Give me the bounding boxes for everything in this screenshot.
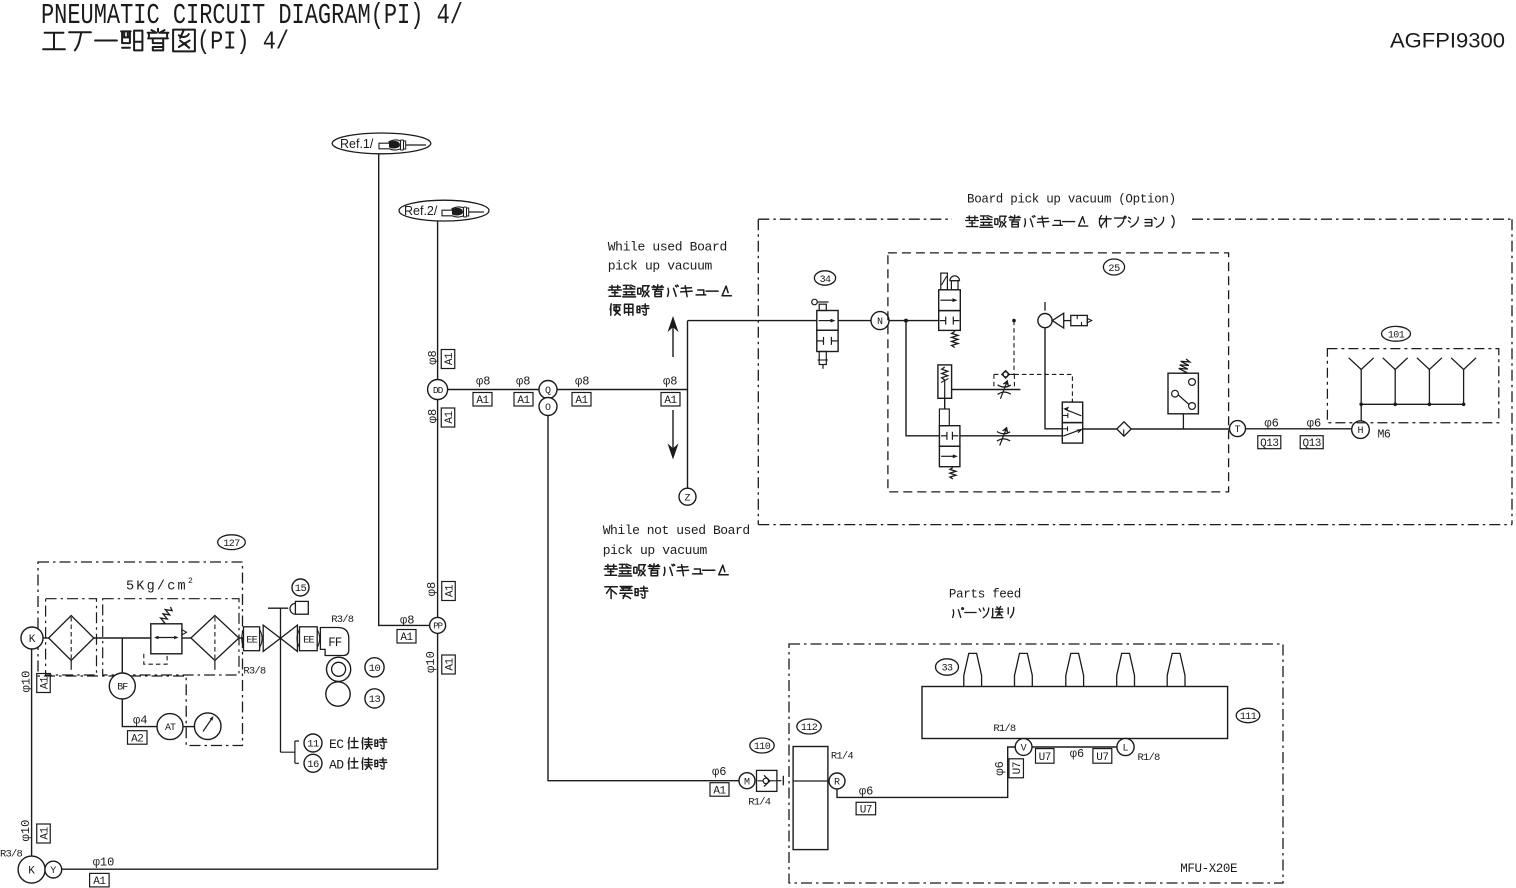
silencer muffler [1071, 315, 1092, 325]
wire bus to node H [1360, 404, 1362, 421]
pressure gauge [194, 713, 221, 740]
svg-text:25: 25 [1108, 263, 1120, 275]
wire from Ref.1 down and right to node PP [379, 154, 430, 626]
wire left riser K to K [31, 649, 33, 856]
wire valve 34 to node N [838, 320, 871, 322]
pressure regulator pilot feedback dashed [144, 654, 167, 664]
valve top actuators [941, 273, 960, 290]
pressure regulator body [151, 624, 187, 654]
wire node Q to flow riser [557, 389, 688, 391]
wire node O down and right to node M [548, 416, 739, 781]
option box Board pick up vacuum [758, 219, 1512, 524]
valve 34 roller lever actuator [812, 299, 829, 310]
label φ8/A1 segment DD-Q first [473, 375, 492, 408]
svg-text:A1: A1 [476, 395, 489, 407]
svg-text:PP: PP [433, 622, 442, 632]
node PP [430, 617, 446, 633]
svg-text:φ8: φ8 [426, 409, 440, 423]
svg-text:φ6: φ6 [1070, 747, 1084, 761]
svg-text:A1: A1 [444, 658, 456, 671]
svg-text:2: 2 [188, 577, 193, 586]
svg-text:127: 127 [223, 539, 240, 550]
label φ6/U7 riser rotated [993, 759, 1024, 778]
svg-text:112: 112 [801, 723, 818, 734]
svg-text:φ6: φ6 [1307, 417, 1321, 431]
box 25 designator oval [1103, 259, 1124, 275]
node L [1117, 738, 1134, 755]
svg-text:R3/8: R3/8 [0, 849, 23, 861]
coupling EE right [297, 627, 320, 651]
svg-text:R1/8: R1/8 [1138, 752, 1161, 764]
valve top spring [952, 331, 958, 347]
label φ8/A1 segment DD-Q second [514, 375, 533, 408]
node O [539, 398, 557, 416]
svg-text:φ6: φ6 [1264, 417, 1278, 431]
svg-text:While not used Board: While not used Board [603, 523, 750, 538]
node Q [539, 381, 557, 399]
svg-text:Parts feed: Parts feed [949, 588, 1021, 602]
bracket to options [281, 741, 300, 763]
wire main supply to valve 34 [688, 320, 817, 322]
svg-text:A1: A1 [39, 676, 51, 689]
label φ10/A1 below PP rotated [424, 651, 457, 674]
svg-text:110: 110 [754, 742, 771, 753]
title Japanese エアー配管図(PI) 4/ [43, 27, 289, 56]
svg-text:33: 33 [942, 664, 953, 675]
node AT [157, 714, 183, 740]
node DD [428, 380, 448, 400]
svg-text:10: 10 [369, 663, 381, 675]
valve lower spring [950, 468, 956, 480]
svg-text:AGFPI9300: AGFPI9300 [1390, 30, 1505, 53]
wire node N into box 25 [889, 320, 939, 322]
svg-text:φ8: φ8 [426, 350, 440, 364]
label φ10/A1 above K bottom rotated [19, 820, 52, 843]
label 5Kg/cm2 [126, 577, 193, 595]
port circle below FF [326, 682, 350, 706]
label φ6/Q13 second [1300, 417, 1323, 451]
svg-text:A1: A1 [575, 395, 588, 407]
ref tag Ref.1 [332, 133, 431, 154]
svg-text:φ6: φ6 [712, 765, 726, 779]
svg-text:A1: A1 [93, 876, 106, 888]
hand shutoff valve [263, 625, 297, 651]
label φ6/A1 at node M [710, 765, 729, 797]
svg-text:U7: U7 [1096, 752, 1108, 764]
svg-text:R1/4: R1/4 [831, 751, 854, 763]
svg-text:φ8: φ8 [425, 582, 439, 596]
label R3/8 above FF [331, 614, 354, 626]
valve 34 drain port [818, 352, 828, 369]
label R1/8 after L [1138, 752, 1161, 764]
wire K to filter [43, 637, 49, 639]
unit 127 designator oval [218, 535, 246, 550]
title PNEUMATIC CIRCUIT DIAGRAM(PI) 4/ [41, 0, 463, 32]
svg-text:Ref.1/: Ref.1/ [340, 137, 374, 151]
svg-text:111: 111 [1240, 712, 1257, 723]
unit 127 filter sub-box [46, 599, 97, 675]
label U7 first [1036, 749, 1055, 764]
inline filter diamond [1117, 422, 1131, 436]
wire flow riser to node Z [687, 321, 689, 489]
svg-text:R1/8: R1/8 [993, 723, 1016, 735]
svg-text:11: 11 [307, 739, 319, 751]
wire regulator to filter F2 [182, 637, 191, 639]
arrow up while-used flow [669, 318, 678, 358]
valve lower of box 25 body [939, 409, 960, 467]
unit 127 regulator sub-box [103, 599, 239, 675]
svg-text:EC: EC [329, 737, 344, 752]
svg-text:φ4: φ4 [133, 714, 147, 728]
wire node DD to node PP [437, 400, 439, 619]
wire node DD to node Q [448, 389, 539, 391]
coupling EE left [242, 627, 262, 651]
wire ejector down to shuttle valve [1045, 328, 1062, 429]
svg-text:A1: A1 [713, 785, 726, 797]
svg-text:101: 101 [1388, 330, 1405, 341]
pilot regulator spring box [938, 365, 952, 398]
wire valve vent tee [268, 608, 288, 752]
vacuum ejector circle [1038, 302, 1052, 328]
svg-text:Q13: Q13 [1303, 438, 1321, 450]
unit 127 outer dash-dot outline [38, 562, 243, 746]
svg-text:N: N [877, 317, 883, 328]
check valve outlet tick [778, 776, 784, 786]
svg-text:φ8: φ8 [476, 375, 490, 389]
svg-text:K: K [28, 866, 35, 878]
svg-text:R1/4: R1/4 [748, 797, 771, 809]
svg-text:AD: AD [329, 757, 344, 772]
svg-text:Board pick up vacuum (Option): Board pick up vacuum (Option) [967, 193, 1176, 207]
node K bottom [18, 856, 45, 883]
svg-text:A1: A1 [400, 632, 413, 644]
svg-text:pick up vacuum: pick up vacuum [608, 259, 713, 274]
node K top [21, 627, 43, 649]
svg-text:U7: U7 [860, 805, 872, 817]
svg-text:Ref.2/: Ref.2/ [404, 204, 438, 218]
flow control throttle arcs [998, 381, 1011, 399]
svg-text:A2: A2 [131, 733, 143, 745]
svg-text:M: M [744, 777, 750, 788]
valve 34 designator oval [814, 271, 835, 286]
node BF [109, 673, 135, 699]
label φ6/U7 after R [856, 785, 876, 817]
svg-text:φ8: φ8 [663, 375, 677, 389]
svg-text:R3/8: R3/8 [243, 665, 266, 677]
svg-text:AT: AT [165, 723, 176, 734]
svg-text:L: L [1122, 744, 1128, 755]
outlet FF [320, 628, 348, 656]
node M [739, 773, 755, 789]
filter F2 diamond [191, 616, 239, 670]
svg-text:φ6: φ6 [993, 761, 1007, 775]
valve 34 body [817, 311, 838, 352]
svg-text:5Kg/cm: 5Kg/cm [126, 580, 188, 595]
pressure switch stem [1182, 414, 1184, 429]
wire branch to BF [121, 638, 123, 673]
check valve 110 [757, 770, 777, 791]
svg-text:φ8: φ8 [575, 375, 589, 389]
wire AT to gauge [183, 726, 194, 728]
doc number AGFPI9300 [1390, 30, 1505, 53]
svg-text:EE: EE [246, 635, 257, 647]
label φ8/A1 segment Q-riser [572, 375, 591, 408]
filter F1 diamond [49, 616, 94, 670]
suction cup manifold bus [1361, 403, 1463, 405]
wire filter F2 to coupling EE [239, 637, 244, 639]
label φ8/A1 below DD rotated [426, 408, 456, 427]
wire node T to node H [1246, 428, 1352, 430]
text While not used Board pick up vacuum [603, 523, 750, 599]
svg-text:While used Board: While used Board [608, 240, 727, 255]
designator 11 EC option [304, 734, 387, 752]
wire node PP down to bottom run [437, 633, 439, 869]
svg-text:34: 34 [820, 275, 831, 286]
shuttle valve body [1062, 402, 1082, 443]
suction cups group 101 [1349, 358, 1476, 406]
wire lower valve output to shuttle valve [960, 435, 1062, 437]
wire BF down to AT [122, 699, 157, 727]
wire shuttle valve output [1083, 428, 1117, 430]
pilot dashed line from main to flow control [1012, 319, 1016, 375]
designator 10 circle [365, 658, 384, 677]
box 101 dashed border [1327, 349, 1498, 423]
svg-text:φ8: φ8 [400, 614, 414, 628]
label φ4/A2 [128, 714, 148, 746]
wire bottom horizontal run Y to riser [62, 868, 438, 870]
svg-text:pick up vacuum: pick up vacuum [603, 543, 708, 558]
valve top of box 25 body [939, 290, 961, 331]
svg-text:DD: DD [433, 385, 444, 396]
pilot dashed line flow control to shuttle [1014, 374, 1072, 402]
text Parts feed [949, 588, 1021, 618]
label φ8/A1 at PP horizontal [397, 614, 416, 645]
svg-text:φ10: φ10 [93, 856, 115, 870]
wire from Ref.2 down to node DD [437, 221, 439, 380]
designator 15 circle [292, 579, 309, 596]
wire branch down to lower valve [906, 321, 939, 436]
label R1/8 inside manifold [993, 723, 1016, 735]
node Y [45, 861, 62, 878]
svg-text:H: H [1357, 426, 1363, 437]
throttle valve lower line [997, 427, 1010, 445]
svg-text:EE: EE [303, 635, 314, 647]
svg-text:φ10: φ10 [19, 671, 33, 693]
svg-text:A1: A1 [444, 352, 456, 365]
svg-text:16: 16 [307, 759, 319, 771]
node R [829, 773, 845, 789]
svg-text:U7: U7 [1039, 752, 1051, 764]
svg-text:V: V [1021, 744, 1027, 755]
svg-text:Q13: Q13 [1260, 438, 1278, 450]
label R3/8 left bottom [0, 849, 23, 861]
designator 33 oval [936, 659, 959, 675]
svg-text:A1: A1 [517, 395, 530, 407]
parts feed box dash-dot border [789, 644, 1283, 883]
designator 13 circle [365, 689, 384, 708]
label R1/4 right of 112 [831, 751, 854, 763]
svg-text:φ10: φ10 [424, 651, 438, 673]
svg-text:R: R [834, 778, 840, 789]
svg-text:(PI) 4/: (PI) 4/ [197, 27, 289, 56]
wire pilot regulator to flow control [952, 389, 1021, 391]
box 25 dashed border [888, 253, 1229, 492]
label φ10/A1 bottom run [90, 856, 115, 888]
label U7 second [1093, 749, 1112, 764]
svg-text:U7: U7 [1012, 762, 1024, 774]
node Z [679, 488, 696, 505]
svg-text:O: O [545, 403, 551, 414]
ref tag Ref.2 [399, 200, 489, 221]
node N [871, 312, 889, 330]
label M6 [1378, 429, 1391, 442]
svg-text:φ10: φ10 [19, 820, 33, 842]
svg-text:φ6: φ6 [859, 785, 873, 799]
wire V to L [1032, 746, 1117, 748]
manifold 111 body [922, 687, 1228, 739]
node H [1352, 421, 1370, 439]
label φ8/A1 above DD rotated [426, 350, 456, 369]
feeder nozzles group 33 [964, 653, 1185, 686]
wire node R to manifold port V [837, 747, 1015, 797]
svg-text:A1: A1 [444, 411, 456, 424]
label MFU-X20E [1180, 862, 1237, 876]
pressure switch spring [1179, 359, 1190, 373]
pressure regulator spring [161, 607, 173, 624]
designator 16 AD option [304, 754, 387, 772]
svg-text:Z: Z [684, 493, 690, 504]
designator 111 oval [1236, 708, 1260, 723]
plug 15 symbol [290, 601, 308, 614]
label φ8/A1 at riser [661, 375, 680, 408]
svg-text:FF: FF [328, 636, 342, 650]
designator 110 oval [750, 738, 774, 753]
label φ10/A1 below K top rotated [19, 671, 51, 693]
svg-text:A1: A1 [39, 827, 51, 840]
text While used Board pick up vacuum [608, 240, 732, 316]
wire filter F1 to regulator [94, 637, 151, 639]
svg-text:15: 15 [295, 583, 307, 595]
port rings below FF [327, 657, 351, 681]
arrow down while-not-used flow [669, 410, 678, 458]
svg-text:Y: Y [50, 866, 56, 877]
node T [1230, 421, 1246, 437]
label φ8/A1 above PP rotated [425, 582, 457, 601]
svg-text:R3/8: R3/8 [331, 614, 354, 626]
svg-text:Q: Q [545, 386, 551, 397]
filter unit 112 body [793, 747, 828, 850]
box 101 designator oval [1382, 326, 1411, 341]
svg-text:BF: BF [117, 683, 128, 694]
svg-text:A1: A1 [664, 395, 677, 407]
pressure switch box [1168, 373, 1198, 414]
svg-text:13: 13 [369, 694, 381, 706]
svg-text:A1: A1 [444, 584, 456, 597]
junction dot branch [904, 319, 908, 323]
node V [1015, 739, 1032, 756]
text Board pick up vacuum (Option) [966, 193, 1176, 228]
wire filter to node T [1131, 428, 1229, 430]
label R3/8 below EE [243, 665, 266, 677]
flow control check valve dashed box [994, 371, 1015, 390]
label φ6 between [1070, 747, 1084, 761]
svg-text:MFU-X20E: MFU-X20E [1180, 862, 1237, 876]
ejector nozzle triangle [1052, 313, 1071, 328]
wire pilot regulator to pilot cell [944, 398, 946, 409]
svg-text:K: K [29, 634, 36, 646]
svg-text:T: T [1234, 425, 1240, 436]
label R1/4 below check valve [748, 797, 771, 809]
designator 112 oval [797, 719, 821, 734]
label φ6/Q13 first [1258, 417, 1281, 451]
svg-text:φ8: φ8 [516, 375, 530, 389]
svg-text:M6: M6 [1378, 429, 1391, 442]
